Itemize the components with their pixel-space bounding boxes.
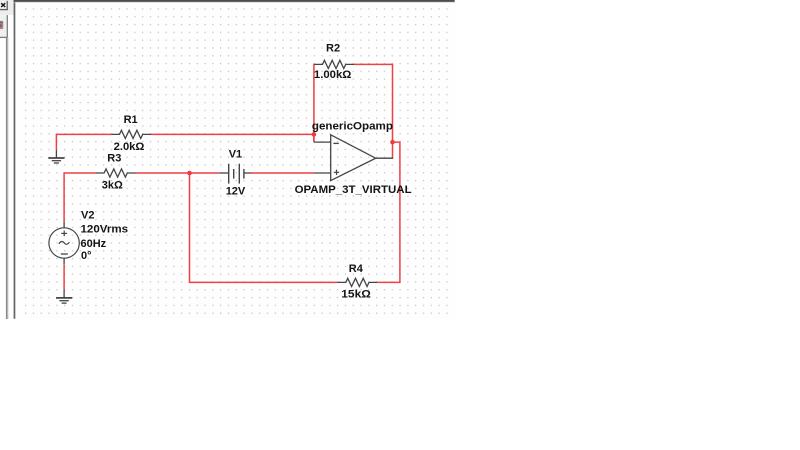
- wire V2 to ground: [63, 264, 65, 289]
- svg-text:2.0kΩ: 2.0kΩ: [114, 141, 145, 153]
- AC source V2: [49, 210, 128, 265]
- svg-text:60Hz: 60Hz: [81, 238, 107, 250]
- svg-text:OPAMP_3T_VIRTUAL: OPAMP_3T_VIRTUAL: [295, 184, 412, 196]
- svg-text:R2: R2: [326, 42, 340, 54]
- panel border vertical line: [7, 37, 8, 319]
- ground (under V2): [56, 290, 72, 304]
- svg-text:R3: R3: [107, 152, 121, 164]
- ground (under R1): [48, 150, 64, 163]
- wire node A up to R2 left: [313, 64, 315, 142]
- node A junction dot: [312, 132, 317, 137]
- left panel background: [0, 0, 14, 15]
- battery V1: [220, 148, 251, 197]
- svg-text:genericOpamp: genericOpamp: [312, 120, 393, 132]
- resistor R1: [111, 114, 151, 153]
- close button: [0, 1, 8, 10]
- wire node C down to R4 left: [190, 173, 338, 282]
- svg-text:R4: R4: [349, 263, 364, 275]
- op-amp U1 OPAMP_3T_VIRTUAL: [295, 120, 412, 196]
- wire node C to V1: [190, 172, 220, 174]
- svg-text:R1: R1: [124, 114, 138, 126]
- canvas left border: [14, 0, 16, 319]
- node C junction dot: [187, 171, 192, 176]
- resistor R2: [314, 42, 354, 81]
- svg-text:1.00kΩ: 1.00kΩ: [314, 69, 352, 81]
- svg-text:12V: 12V: [226, 185, 246, 197]
- resistor R3: [96, 152, 136, 191]
- svg-text:0°: 0°: [81, 250, 92, 262]
- wire R3 to node C: [136, 172, 190, 174]
- canvas top border: [14, 0, 455, 3]
- svg-text:120Vrms: 120Vrms: [81, 224, 129, 236]
- wire R1 to node A: [151, 133, 314, 135]
- node B junction dot: [390, 140, 395, 145]
- resistor R4: [338, 263, 378, 300]
- canvas grid dots: [15, 2, 454, 319]
- svg-text:15kΩ: 15kΩ: [341, 288, 371, 300]
- wire V1 to noninverting input: [251, 172, 315, 174]
- wire V2 to R3: [64, 173, 96, 221]
- svg-text:3kΩ: 3kΩ: [102, 179, 123, 191]
- wire R2 right, down to output: [354, 64, 393, 158]
- side panel tab: [0, 15, 8, 37]
- svg-text:V1: V1: [229, 148, 242, 160]
- wire ground to R1: [56, 134, 111, 149]
- svg-text:V2: V2: [81, 210, 94, 222]
- panel icon: [0, 21, 3, 29]
- wire node B branch to R4 drop: [377, 142, 400, 282]
- wire node A down to inverting input: [313, 134, 315, 142]
